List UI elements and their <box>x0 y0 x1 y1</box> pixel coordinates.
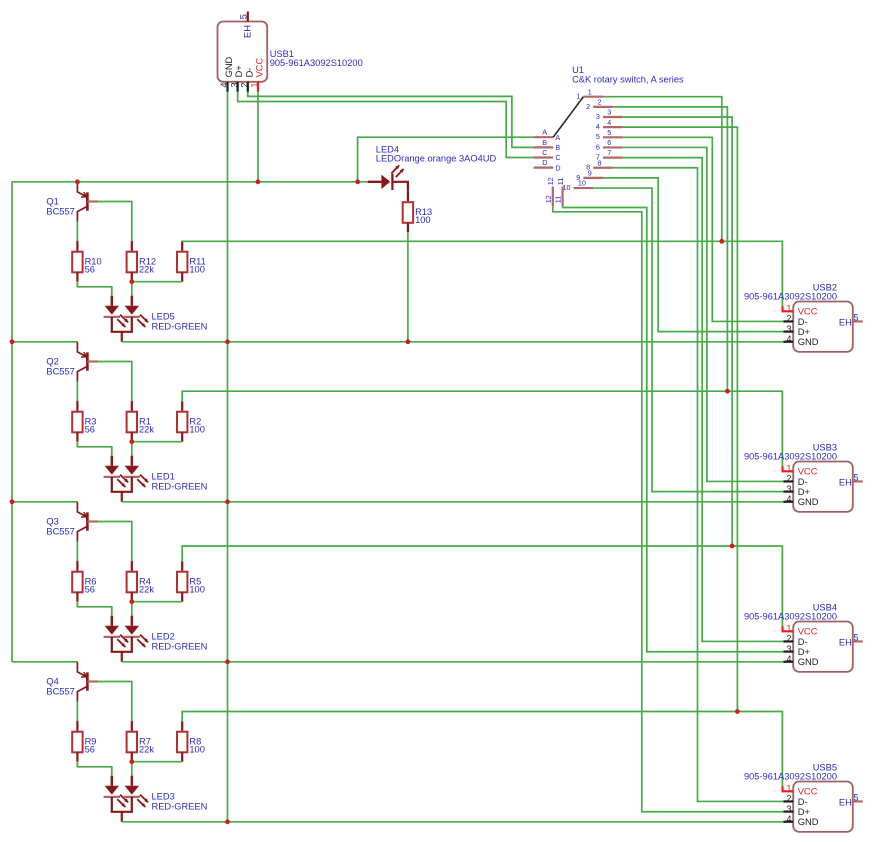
wire U1 pin 9 to USB data pin <box>603 178 783 332</box>
wire R8 bottom to R7 bottom <box>132 761 182 763</box>
wire U1 pin 10 to USB data pin <box>593 188 783 492</box>
svg-text:1: 1 <box>588 87 592 96</box>
svg-text:C: C <box>542 148 547 157</box>
svg-text:5: 5 <box>853 312 858 322</box>
label R10 value 56 <box>85 257 102 275</box>
wire U1 pin 6 to USB data pin <box>623 147 784 481</box>
svg-text:2: 2 <box>786 634 791 644</box>
svg-text:2: 2 <box>240 82 250 87</box>
svg-text:100: 100 <box>189 745 205 755</box>
wire U1 pin 8 to USB data pin <box>613 168 784 802</box>
svg-text:56: 56 <box>85 585 95 595</box>
svg-text:1: 1 <box>786 624 791 634</box>
USB1 pin 4 GND <box>219 56 234 91</box>
resistor R12 <box>127 241 137 282</box>
svg-text:EH: EH <box>839 798 852 808</box>
USB connector USB2 905-961A3092S10200 <box>793 302 853 352</box>
svg-text:D-: D- <box>798 477 808 487</box>
svg-text:9: 9 <box>588 169 592 178</box>
svg-text:905-961A3092S10200: 905-961A3092S10200 <box>744 292 837 302</box>
svg-text:EH: EH <box>839 638 852 648</box>
dual LED LED2 RED-GREEN <box>104 616 149 662</box>
wire R12 bottom to right LED anode <box>131 282 133 296</box>
svg-text:D-: D- <box>244 68 254 78</box>
svg-text:RED-GREEN: RED-GREEN <box>152 642 208 652</box>
USB5 pin 2 D- <box>783 794 807 807</box>
USB1 pin 2 D- <box>240 68 255 92</box>
svg-text:4: 4 <box>607 118 611 127</box>
label LED1 RED-GREEN <box>152 472 208 492</box>
USB5 pin 5 EH <box>839 792 863 807</box>
wire Q2 base to R1 <box>98 362 132 402</box>
wire U1 pin 5 to USB data pin <box>623 137 784 321</box>
svg-text:VCC: VCC <box>798 467 818 477</box>
USB5 pin 3 D+ <box>783 804 810 817</box>
transistor Q2 BC557 PNP <box>77 342 97 382</box>
wire Q4 base to R7 <box>98 682 132 722</box>
svg-text:56: 56 <box>85 745 95 755</box>
label R2 value 100 <box>189 417 205 435</box>
svg-text:GND: GND <box>224 56 234 77</box>
junction switch output 3 on VCC feed line <box>730 544 735 549</box>
svg-text:3: 3 <box>786 324 791 334</box>
wire U1 pin 1 to VCC feed <box>603 97 722 242</box>
label R12 value 22k <box>139 257 156 275</box>
USB3 pin 5 EH <box>839 472 863 487</box>
wire R6 bottom to left LED anode <box>77 602 111 616</box>
svg-text:GND: GND <box>798 657 819 667</box>
svg-text:VCC: VCC <box>798 627 818 637</box>
U1 pole pin D <box>534 158 561 172</box>
junction GND vertical on rail 3 <box>225 659 230 664</box>
junction R12 bottom node <box>129 279 134 284</box>
U1 throw pin 8 <box>586 158 613 171</box>
resistor R11 <box>177 241 187 282</box>
svg-text:EH: EH <box>839 478 852 488</box>
svg-text:4: 4 <box>219 82 229 87</box>
USB4 pin 4 GND <box>783 654 818 667</box>
USB2 pin 1 VCC <box>783 304 818 317</box>
wire U1 pin 2 to VCC feed <box>613 107 728 391</box>
svg-text:4: 4 <box>596 122 600 131</box>
USB3 pin 4 GND <box>783 494 818 507</box>
svg-text:5: 5 <box>607 128 611 137</box>
svg-text:EH: EH <box>839 318 852 328</box>
svg-text:10: 10 <box>578 179 586 188</box>
svg-text:Q3: Q3 <box>46 517 58 527</box>
wire Q3 base to R4 <box>98 522 132 562</box>
svg-text:A: A <box>542 128 547 137</box>
resistor R13 <box>403 192 413 233</box>
wire R11 bottom to R12 bottom <box>132 281 182 283</box>
svg-text:100: 100 <box>189 265 205 275</box>
dual LED LED1 RED-GREEN <box>104 456 149 502</box>
svg-text:22k: 22k <box>139 425 154 435</box>
svg-text:C&K rotary switch, A series: C&K rotary switch, A series <box>572 74 684 84</box>
svg-text:12: 12 <box>544 195 553 203</box>
svg-text:2: 2 <box>786 794 791 804</box>
U1 throw pin 10 <box>563 179 594 192</box>
wire LED4 cathode to R13 <box>407 191 409 192</box>
svg-text:GND: GND <box>798 497 819 507</box>
U1 throw pin 5 <box>596 128 623 141</box>
wire LED2 cathode GND rail to USB4 GND pin <box>122 661 784 663</box>
U1 pole pin A <box>534 128 561 142</box>
USB1 pin 1 VCC <box>250 57 265 91</box>
svg-text:4: 4 <box>786 494 791 504</box>
U1 pole pin B <box>534 138 561 152</box>
svg-text:B: B <box>542 138 547 147</box>
U1 throw pin 4 <box>596 118 623 131</box>
svg-text:3: 3 <box>607 108 611 117</box>
USB4 pin 5 EH <box>839 632 863 647</box>
svg-text:7: 7 <box>607 148 611 157</box>
wire LED1 cathode GND rail to USB3 GND pin <box>122 501 784 503</box>
svg-text:100: 100 <box>415 215 431 225</box>
USB4 pin 2 D- <box>783 634 807 647</box>
svg-text:VCC: VCC <box>255 57 265 77</box>
svg-text:2: 2 <box>786 474 791 484</box>
svg-text:LED2: LED2 <box>152 632 175 642</box>
wire VCC rail (left) with branch riser <box>12 181 368 183</box>
svg-text:3: 3 <box>786 804 791 814</box>
svg-text:1: 1 <box>786 464 791 474</box>
svg-text:D+: D+ <box>798 807 810 817</box>
svg-text:RED-GREEN: RED-GREEN <box>152 322 208 332</box>
wire VCC left rail down the left side <box>11 182 13 662</box>
resistor R2 <box>177 401 187 442</box>
LED LED4 orange <box>368 165 408 191</box>
junction GND vertical on rail 4 <box>225 819 230 824</box>
svg-text:3: 3 <box>229 82 239 87</box>
svg-text:D+: D+ <box>798 487 810 497</box>
svg-text:D-: D- <box>798 797 808 807</box>
resistor R5 <box>177 561 187 602</box>
svg-text:VCC: VCC <box>798 787 818 797</box>
svg-text:D+: D+ <box>234 65 244 77</box>
resistor R8 <box>177 721 187 762</box>
resistor R3 <box>72 401 82 442</box>
dual LED LED5 RED-GREEN <box>104 296 149 342</box>
label USB5 905-961A3092S10200 <box>744 763 837 782</box>
wire R4 bottom to right LED anode <box>131 602 133 616</box>
svg-text:GND: GND <box>798 337 819 347</box>
svg-text:5: 5 <box>853 472 858 482</box>
label LED3 RED-GREEN <box>152 792 208 812</box>
label LED2 RED-GREEN <box>152 632 208 652</box>
rotary switch U1 C&K A series <box>0 0 1 1</box>
svg-text:VCC: VCC <box>798 307 818 317</box>
wire U1 pin 11 to USB4 D+ <box>563 206 784 652</box>
dual LED LED3 RED-GREEN <box>104 776 149 822</box>
USB3 pin 2 D- <box>783 474 807 487</box>
junction GND vertical on rail 2 <box>225 499 230 504</box>
label R4 value 22k <box>139 577 154 595</box>
svg-text:22k: 22k <box>139 265 154 275</box>
junction switch output 4 on VCC feed line <box>735 709 740 714</box>
svg-text:D+: D+ <box>798 327 810 337</box>
resistor R6 <box>72 561 82 602</box>
junction R13 on GND rail <box>406 339 411 344</box>
USB2 pin 4 GND <box>783 334 818 347</box>
USB connector USB3 905-961A3092S10200 <box>793 462 853 512</box>
USB5 pin 4 GND <box>783 814 818 827</box>
label Q3 BC557 <box>46 517 74 537</box>
transistor Q4 BC557 PNP <box>77 662 97 702</box>
svg-text:56: 56 <box>85 425 95 435</box>
junction switch output 2 on VCC feed line <box>725 389 730 394</box>
label USB1 905-961A3092S10200 <box>270 49 363 68</box>
svg-text:100: 100 <box>189 585 205 595</box>
USB3 pin 3 D+ <box>783 484 810 497</box>
svg-text:LEDOrange orange 3AO4UD: LEDOrange orange 3AO4UD <box>376 154 497 164</box>
junction Q1 emitter on VCC rail <box>75 179 80 184</box>
wire R11 top to USB2 VCC feed line <box>182 241 782 307</box>
USB2 pin 3 D+ <box>783 324 810 337</box>
USB3 pin 1 VCC <box>783 464 818 477</box>
label R5 value 100 <box>189 577 205 595</box>
U1 throw pin 6 <box>596 138 623 151</box>
USB connector USB5 905-961A3092S10200 <box>793 782 853 832</box>
svg-text:Q2: Q2 <box>46 357 58 367</box>
label Q4 BC557 <box>46 677 74 697</box>
svg-text:4: 4 <box>786 654 791 664</box>
wire U1 pin 4 to VCC feed <box>623 127 738 711</box>
svg-text:8: 8 <box>598 158 602 167</box>
wire LED5 cathode GND rail to USB2 GND pin <box>122 341 784 343</box>
svg-text:RED-GREEN: RED-GREEN <box>152 802 208 812</box>
wire R2 bottom to R1 bottom <box>132 441 182 443</box>
junction VCC pin1 on rail <box>256 179 261 184</box>
svg-text:905-961A3092S10200: 905-961A3092S10200 <box>270 58 363 68</box>
label R13 value 100 <box>415 207 432 225</box>
label LED4 LEDOrange orange 3AO4UD <box>376 144 497 163</box>
label U1 C&K rotary switch, A series <box>572 65 684 84</box>
USB connector USB1 905-961A3092S10200 <box>218 22 268 82</box>
svg-text:LED1: LED1 <box>152 472 175 482</box>
svg-text:22k: 22k <box>139 745 154 755</box>
USB1 pin 5 EH (top) <box>238 12 252 39</box>
wire D- from USB1 pin2 to switch pole B <box>248 92 534 148</box>
wire Q1 base to R12 <box>98 202 132 242</box>
svg-text:56: 56 <box>85 265 95 275</box>
svg-text:BC557: BC557 <box>46 207 74 217</box>
junction R1 bottom node <box>129 439 134 444</box>
U1 throw pin 12 <box>544 177 555 206</box>
wire R10 bottom to left LED anode <box>77 282 111 296</box>
svg-text:2: 2 <box>598 97 602 106</box>
resistor R4 <box>127 561 137 602</box>
wire Q2 collector to R3 <box>76 382 78 402</box>
label USB4 905-961A3092S10200 <box>744 603 837 622</box>
USB connector USB4 905-961A3092S10200 <box>793 622 853 672</box>
svg-text:D-: D- <box>798 317 808 327</box>
label LED5 RED-GREEN <box>152 312 208 332</box>
wire VCC from USB1 pin1 down to VCC rail <box>257 92 259 182</box>
svg-text:905-961A3092S10200: 905-961A3092S10200 <box>744 772 837 782</box>
label R3 value 56 <box>85 417 97 435</box>
svg-text:1: 1 <box>576 92 580 101</box>
svg-text:B: B <box>555 143 560 152</box>
label R11 value 100 <box>189 257 205 275</box>
junction switch output 1 on VCC feed line <box>719 239 724 244</box>
U1 throw pin 7 <box>596 148 623 161</box>
U1 throw pin 1 <box>576 87 603 100</box>
svg-text:4: 4 <box>786 334 791 344</box>
wire D+ from USB1 pin3 to switch pole C <box>238 92 534 158</box>
label R6 value 56 <box>85 577 97 595</box>
U1 pole pin C <box>534 148 561 162</box>
U1 wiper arm <box>553 97 583 138</box>
svg-text:5: 5 <box>238 14 248 19</box>
svg-text:BC557: BC557 <box>46 527 74 537</box>
svg-text:C: C <box>555 153 560 162</box>
junction R4 bottom node <box>129 599 134 604</box>
junction VCC left rail at block 3 <box>10 499 15 504</box>
junction GND vertical on rail 1 <box>225 339 230 344</box>
svg-text:EH: EH <box>242 25 252 38</box>
USB1 pin 3 D+ <box>229 65 244 92</box>
svg-text:BC557: BC557 <box>46 687 74 697</box>
svg-text:905-961A3092S10200: 905-961A3092S10200 <box>744 452 837 462</box>
resistor R1 <box>127 401 137 442</box>
svg-text:1: 1 <box>786 304 791 314</box>
svg-text:RED-GREEN: RED-GREEN <box>152 482 208 492</box>
U1 throw pin 2 <box>586 97 613 110</box>
svg-text:12: 12 <box>546 177 555 185</box>
transistor Q1 BC557 PNP <box>77 182 97 222</box>
label R9 value 56 <box>85 737 97 755</box>
junction VCC left rail at block 2 <box>10 339 15 344</box>
USB4 pin 3 D+ <box>783 644 810 657</box>
resistor R9 <box>72 721 82 762</box>
wire R13 bottom to GND rail <box>407 232 409 342</box>
svg-text:GND: GND <box>798 817 819 827</box>
junction riser to switch pole A <box>355 179 360 184</box>
label Q1 BC557 <box>46 197 74 217</box>
wire GND from USB1 pin4 down the page <box>227 92 229 822</box>
USB5 pin 1 VCC <box>783 784 818 797</box>
svg-text:22k: 22k <box>139 585 154 595</box>
wire R5 top to USB4 VCC feed line <box>182 546 782 627</box>
svg-text:11: 11 <box>554 196 563 203</box>
svg-text:11: 11 <box>556 178 565 185</box>
svg-text:LED5: LED5 <box>152 312 175 322</box>
USB2 pin 2 D- <box>783 314 807 327</box>
svg-text:LED3: LED3 <box>152 792 175 802</box>
resistor R10 <box>72 241 82 282</box>
svg-text:5: 5 <box>853 632 858 642</box>
wire Q3 collector to R6 <box>76 542 78 562</box>
label R7 value 22k <box>139 737 154 755</box>
USB4 pin 1 VCC <box>783 624 818 637</box>
svg-text:BC557: BC557 <box>46 367 74 377</box>
svg-text:3: 3 <box>596 112 600 121</box>
wire R7 bottom to right LED anode <box>131 762 133 776</box>
svg-text:3: 3 <box>786 484 791 494</box>
wire U1 pin 7 to USB data pin <box>623 158 784 642</box>
svg-text:D-: D- <box>798 637 808 647</box>
resistor R7 <box>127 721 137 762</box>
label USB2 905-961A3092S10200 <box>744 283 837 302</box>
svg-text:D+: D+ <box>798 647 810 657</box>
U1 throw pin 11 <box>554 178 565 206</box>
wire Q4 collector to R9 <box>76 702 78 722</box>
svg-text:D: D <box>542 158 547 167</box>
svg-text:3: 3 <box>786 644 791 654</box>
transistor Q3 BC557 PNP <box>77 502 97 542</box>
wire R9 bottom to left LED anode <box>77 762 111 776</box>
wire LED3 cathode GND rail to USB5 GND pin <box>122 821 784 823</box>
svg-text:6: 6 <box>596 142 600 151</box>
svg-text:Q1: Q1 <box>46 197 58 207</box>
wire R1 bottom to right LED anode <box>131 442 133 456</box>
svg-text:5: 5 <box>596 132 600 141</box>
label R8 value 100 <box>189 737 205 755</box>
wire R3 bottom to left LED anode <box>77 442 111 456</box>
wire VCC stub to Q2 emitter <box>12 341 77 343</box>
svg-text:1: 1 <box>786 784 791 794</box>
svg-text:Q4: Q4 <box>46 677 58 687</box>
wire R8 top to USB5 VCC feed line <box>182 712 782 787</box>
label Q2 BC557 <box>46 357 74 377</box>
svg-text:D: D <box>555 163 560 172</box>
wire Q1 collector to R10 <box>76 222 78 242</box>
wire U1 pin 12 to USB5 D+ <box>553 206 784 812</box>
wire R5 bottom to R4 bottom <box>132 601 182 603</box>
wire R2 top to USB3 VCC feed line <box>182 391 782 467</box>
svg-text:100: 100 <box>189 425 205 435</box>
wire U1 pin 3 to VCC feed <box>623 117 733 546</box>
U1 throw pin 9 <box>576 169 603 182</box>
USB2 pin 5 EH <box>839 312 863 327</box>
svg-text:2: 2 <box>586 102 590 111</box>
svg-text:5: 5 <box>853 792 858 802</box>
U1 throw pin 3 <box>596 108 623 121</box>
svg-text:1: 1 <box>250 82 260 87</box>
svg-text:2: 2 <box>786 314 791 324</box>
label USB3 905-961A3092S10200 <box>744 443 837 462</box>
label R1 value 22k <box>139 417 154 435</box>
wire riser VCC to switch pole A <box>358 137 534 182</box>
junction R7 bottom node <box>129 759 134 764</box>
wire VCC stub to Q4 emitter <box>12 661 77 663</box>
svg-text:6: 6 <box>607 138 611 147</box>
wire VCC stub to Q3 emitter <box>12 501 77 503</box>
svg-text:4: 4 <box>786 814 791 824</box>
svg-text:905-961A3092S10200: 905-961A3092S10200 <box>744 612 837 622</box>
